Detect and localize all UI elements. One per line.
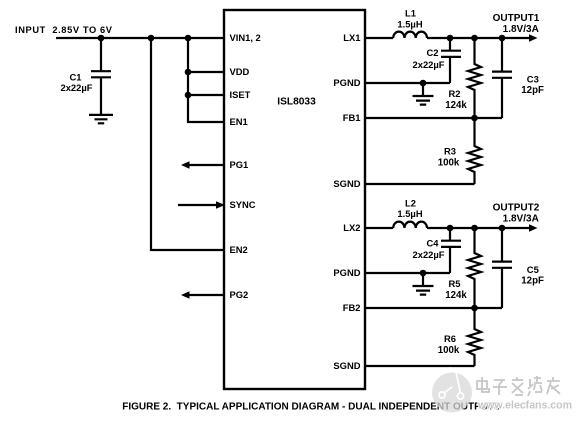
arrow SYNC input xyxy=(178,201,225,208)
wire SGND2 xyxy=(365,365,475,367)
node VDD junction xyxy=(185,69,192,76)
wire VOUT1 bus xyxy=(427,37,531,39)
svg-text:12pF: 12pF xyxy=(521,85,544,96)
svg-text:ISET: ISET xyxy=(230,89,251,100)
svg-text:124k: 124k xyxy=(445,100,467,111)
svg-text:C4: C4 xyxy=(427,237,440,248)
wire FB1 xyxy=(365,117,502,119)
svg-text:L1: L1 xyxy=(405,8,416,19)
svg-text:INPUT 2.85V TO 6V: INPUT 2.85V TO 6V xyxy=(15,25,113,35)
inductor L2 xyxy=(393,197,427,228)
capacitor C5 xyxy=(492,228,544,308)
svg-text:2x22µF: 2x22µF xyxy=(61,82,93,93)
node FB1 junction xyxy=(471,115,478,122)
svg-text:C2: C2 xyxy=(427,47,439,58)
inductor L1 xyxy=(393,8,427,38)
svg-text:SYNC: SYNC xyxy=(230,199,256,210)
ground (PGND1) xyxy=(413,83,434,105)
node LX2/C4 junction xyxy=(447,225,454,232)
node LX2/R5 junction xyxy=(471,225,478,232)
node PGND2 ground tap xyxy=(420,270,427,277)
ground (C1) xyxy=(89,115,113,123)
svg-text:FB2: FB2 xyxy=(343,302,361,313)
svg-text:1.5µH: 1.5µH xyxy=(397,208,422,219)
svg-text:SGND: SGND xyxy=(333,178,360,189)
resistor R3 xyxy=(438,118,481,184)
node OUTPUT2 junction xyxy=(499,225,506,232)
svg-text:PG1: PG1 xyxy=(230,159,249,170)
svg-text:1.8V/3A: 1.8V/3A xyxy=(503,214,539,225)
svg-text:PGND: PGND xyxy=(333,267,360,278)
svg-text:2x22µF: 2x22µF xyxy=(413,249,445,260)
capacitor C3 xyxy=(492,38,544,118)
wire EN2 feed xyxy=(151,38,224,250)
arrow OUTPUT2 xyxy=(529,224,538,231)
svg-text:LX1: LX1 xyxy=(343,32,360,43)
svg-text:C5: C5 xyxy=(527,264,539,275)
svg-text:EN1: EN1 xyxy=(230,116,248,127)
wire input bus xyxy=(56,37,225,39)
svg-text:PGND: PGND xyxy=(333,77,360,88)
resistor R5 xyxy=(445,228,481,308)
node OUTPUT1 junction xyxy=(499,35,506,42)
svg-text:R3: R3 xyxy=(444,145,456,156)
wire VDD/ISET/EN1 feed xyxy=(188,38,224,122)
svg-text:1.5µH: 1.5µH xyxy=(397,18,422,29)
node input/C1 junction xyxy=(98,35,105,42)
node FB2 junction xyxy=(471,305,478,312)
svg-text:OUTPUT2: OUTPUT2 xyxy=(493,203,540,214)
node LX1/C2 junction xyxy=(447,35,454,42)
IC U1 ISL8033 xyxy=(224,10,365,389)
arrow PG1 output xyxy=(181,161,224,168)
capacitor C2 xyxy=(413,38,461,83)
wire LX2 xyxy=(365,227,393,229)
watermark logo disc xyxy=(432,368,472,413)
wire PGND1 xyxy=(365,82,450,84)
ground (PGND2) xyxy=(413,273,434,295)
svg-text:1.8V/3A: 1.8V/3A xyxy=(503,24,539,35)
svg-text:www.elecfans.com: www.elecfans.com xyxy=(477,400,572,412)
svg-text:SGND: SGND xyxy=(333,360,360,371)
resistor R2 xyxy=(445,38,481,118)
svg-text:VDD: VDD xyxy=(230,66,250,77)
svg-text:LX2: LX2 xyxy=(343,222,360,233)
node PGND1 ground tap xyxy=(420,80,427,87)
svg-text:C1: C1 xyxy=(70,72,82,83)
capacitor C1 xyxy=(61,38,111,114)
svg-text:OUTPUT1: OUTPUT1 xyxy=(493,13,540,24)
svg-text:12pF: 12pF xyxy=(521,275,544,286)
svg-text:R5: R5 xyxy=(449,278,461,289)
wire PGND2 xyxy=(365,272,450,274)
wire SGND1 xyxy=(365,183,475,185)
svg-text:EN2: EN2 xyxy=(230,244,248,255)
node input/VDD junction xyxy=(185,35,192,42)
svg-text:VIN1, 2: VIN1, 2 xyxy=(230,32,261,43)
wire LX1 xyxy=(365,37,393,39)
node ISET junction xyxy=(185,92,192,99)
label OUTPUT1 xyxy=(493,13,540,35)
resistor R6 xyxy=(438,308,481,366)
wire FB2 xyxy=(365,307,502,309)
label OUTPUT2 xyxy=(493,203,540,225)
node LX1/R2 junction xyxy=(471,35,478,42)
svg-text:124k: 124k xyxy=(445,290,467,301)
svg-text:C3: C3 xyxy=(527,74,539,85)
svg-text:FB1: FB1 xyxy=(343,112,361,123)
arrow OUTPUT1 xyxy=(529,34,538,41)
svg-text:100k: 100k xyxy=(438,345,460,356)
watermark chinese text xyxy=(477,376,560,396)
svg-text:R6: R6 xyxy=(444,333,456,344)
svg-text:PG2: PG2 xyxy=(230,289,249,300)
node input/EN2 junction xyxy=(148,35,155,42)
svg-text:100k: 100k xyxy=(438,157,460,168)
svg-text:2x22µF: 2x22µF xyxy=(413,59,445,70)
svg-text:L2: L2 xyxy=(405,197,416,208)
svg-text:ISL8033: ISL8033 xyxy=(277,97,316,108)
capacitor C4 xyxy=(413,228,461,273)
wire VOUT2 bus xyxy=(427,227,531,229)
arrow PG2 output xyxy=(181,291,224,298)
svg-text:R2: R2 xyxy=(449,88,461,99)
